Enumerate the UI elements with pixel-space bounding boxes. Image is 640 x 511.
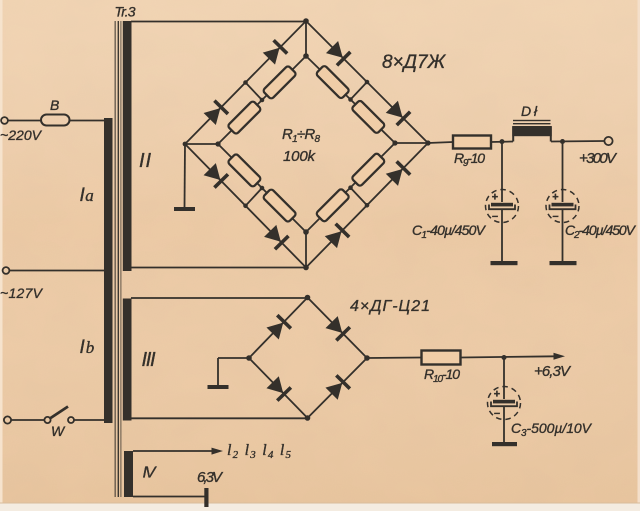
svg-text:4×ДГ-Ц21: 4×ДГ-Ц21 [350,298,430,315]
svg-text:Ia: Ia [80,185,94,206]
svg-text:+300V: +300V [579,150,618,167]
svg-text:~220V: ~220V [0,127,43,143]
svg-text:100k: 100k [283,148,317,165]
svg-text:II: II [139,150,151,172]
svg-text:Ib: Ib [80,337,95,358]
svg-text:III: III [142,349,156,371]
svg-text:R1÷R8: R1÷R8 [282,126,320,145]
svg-text:8×Д7Ж: 8×Д7Ж [382,52,447,73]
svg-text:Dł: Dł [521,103,538,119]
svg-text:+6,3V: +6,3V [534,363,572,380]
svg-text:B: B [50,97,59,113]
svg-text:Tr.3: Tr.3 [115,4,136,20]
svg-text:~127V: ~127V [0,285,44,301]
svg-text:W: W [51,423,66,439]
svg-text:IV: IV [143,465,157,482]
svg-text:6,3V: 6,3V [197,469,224,486]
